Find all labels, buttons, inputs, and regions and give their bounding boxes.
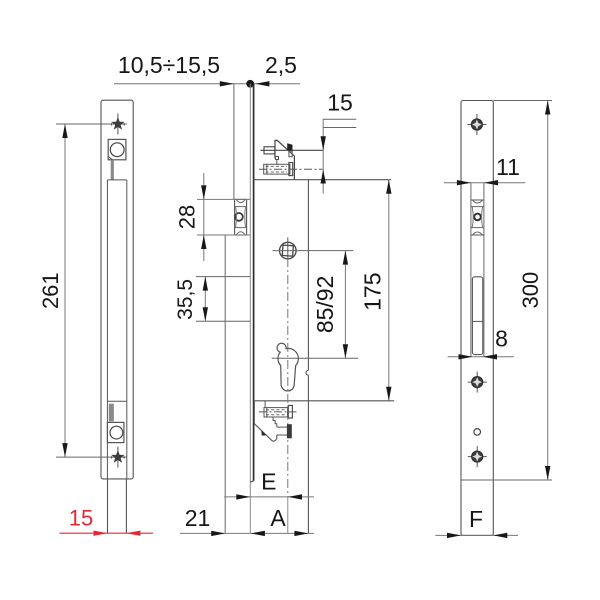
svg-text:A: A	[270, 505, 286, 531]
svg-text:21: 21	[185, 505, 211, 531]
svg-text:261: 261	[38, 272, 63, 309]
svg-text:28: 28	[175, 205, 200, 229]
svg-text:E: E	[261, 469, 276, 495]
svg-text:35,5: 35,5	[174, 279, 197, 320]
svg-text:F: F	[469, 506, 483, 532]
svg-text:10,5÷15,5: 10,5÷15,5	[118, 52, 220, 78]
svg-text:15: 15	[69, 506, 93, 531]
svg-text:175: 175	[360, 273, 386, 311]
svg-text:2,5: 2,5	[265, 52, 297, 78]
svg-text:15: 15	[327, 90, 353, 116]
svg-text:85/92: 85/92	[312, 276, 338, 334]
svg-text:11: 11	[496, 154, 520, 180]
svg-text:8: 8	[495, 326, 508, 352]
svg-text:300: 300	[518, 272, 543, 309]
